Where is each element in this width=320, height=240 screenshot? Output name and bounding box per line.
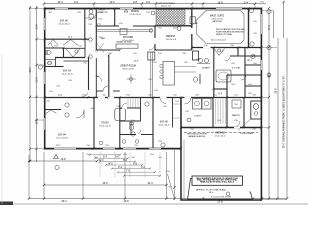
wall garage front xyxy=(181,199,262,201)
window right 1 xyxy=(260,14,262,34)
dimension line bottom overall xyxy=(29,198,286,200)
svg-text:B.R. #3: B.R. #3 xyxy=(63,71,71,73)
bubble left wall xyxy=(38,65,42,69)
door gap kitchen xyxy=(154,38,156,44)
svg-text:12'-0: 12'-0 xyxy=(109,2,115,4)
svg-text:38'-0: 38'-0 xyxy=(30,67,32,73)
svg-text:21'-0 x 21'-0: 21'-0 x 21'-0 xyxy=(215,135,225,137)
great room divider wall xyxy=(150,52,152,98)
sidewalk diagonal xyxy=(168,174,175,199)
svg-text:B.R. #2: B.R. #2 xyxy=(60,21,68,23)
window left 2 xyxy=(44,72,46,84)
bubble corner 3 xyxy=(251,54,255,58)
wall bath2 low xyxy=(120,134,153,136)
wall wic mid xyxy=(227,74,261,76)
master leader note xyxy=(211,28,245,42)
dimension ticks right and bottom xyxy=(28,1,288,200)
fixture fireplace niche xyxy=(190,17,196,24)
wall laundry 1 xyxy=(212,98,214,128)
dimension ticks left xyxy=(29,7,38,162)
fixture bath2 toilet xyxy=(129,125,133,131)
svg-text:M.BATH: M.BATH xyxy=(202,67,210,70)
fixture great room bar xyxy=(163,62,175,86)
wall master bottom xyxy=(192,47,262,49)
wall hall south of BR2 xyxy=(44,47,64,49)
door gap bedroom3 xyxy=(88,90,90,97)
wall closet right xyxy=(84,39,86,57)
svg-text:GARAGE: GARAGE xyxy=(215,132,225,135)
svg-text:KITCHEN: KITCHEN xyxy=(123,37,133,39)
wall wic top xyxy=(227,55,261,57)
wall master right inner xyxy=(248,8,250,48)
window top 1 xyxy=(55,8,68,10)
wall wic 1 xyxy=(237,48,239,57)
window bottom 1 xyxy=(54,148,76,150)
wall closet bar xyxy=(55,57,85,59)
svg-text:16'-2 x 13'-6 CLG.: 16'-2 x 13'-6 CLG. xyxy=(211,40,227,42)
door arc foyer xyxy=(88,12,96,20)
door gap porch-breakfast xyxy=(191,28,193,34)
ceiling fan great room xyxy=(127,75,136,84)
wall closet right col xyxy=(244,48,246,98)
fixture mbath counter xyxy=(197,63,210,65)
svg-text:W.I.C.: W.I.C. xyxy=(247,60,253,62)
bottom dim stack ticks xyxy=(89,154,161,177)
door arc bath2 low xyxy=(136,130,141,135)
fixture bath2 sink xyxy=(145,102,149,106)
svg-text:11'-4 x 11'-0: 11'-4 x 11'-0 xyxy=(62,74,74,76)
wall bath2 mid xyxy=(120,120,141,122)
svg-text:ISLAND W/ SINK: ISLAND W/ SINK xyxy=(116,41,132,44)
wall wic left xyxy=(226,75,228,98)
svg-text:B.R. #5: B.R. #5 xyxy=(160,122,168,124)
wall bath2 right xyxy=(152,98,154,149)
dimension line bottom mid xyxy=(44,184,167,186)
wall breakfast bottom xyxy=(155,49,192,51)
bubble master wall 2 xyxy=(250,42,254,46)
master suite tray ceiling outline xyxy=(197,11,245,44)
svg-text:12'-8: 12'-8 xyxy=(60,159,66,161)
dimension line left outer xyxy=(29,6,31,162)
toilet master xyxy=(194,77,198,82)
wall bath right xyxy=(63,48,65,58)
bubble master wall xyxy=(249,8,253,12)
svg-text:11'-4: 11'-4 xyxy=(37,24,39,30)
fan pentagon foyer xyxy=(89,15,94,20)
fixture dryer xyxy=(202,99,211,110)
wall closet top xyxy=(64,47,86,49)
pantry X xyxy=(97,43,105,53)
top dimension texts xyxy=(57,2,264,8)
room label bedroom2 xyxy=(56,11,253,140)
closet shelf hall top xyxy=(86,17,97,19)
wall bedroom2 right / hall xyxy=(84,8,86,39)
dimension line right 1b xyxy=(273,11,275,39)
door arc kitchen xyxy=(149,44,155,50)
bubble right dim top xyxy=(267,9,271,13)
hall door arc xyxy=(103,86,108,91)
br4 closet wall xyxy=(44,109,61,111)
svg-text:11'-0 x 11'-6: 11'-0 x 11'-6 xyxy=(159,125,171,127)
svg-text:DINING: DINING xyxy=(131,11,139,13)
note box xyxy=(192,176,243,185)
fixture kitchen island xyxy=(116,44,138,48)
door arc bedroom5 xyxy=(160,98,166,104)
door gap hall to great xyxy=(98,97,105,99)
dimension line top xyxy=(44,3,266,5)
window right 2 xyxy=(260,60,262,70)
wall porch bottom xyxy=(155,25,192,27)
door gap laundry xyxy=(185,97,192,99)
right dimension texts rotated xyxy=(269,25,285,149)
svg-text:PANTRY: PANTRY xyxy=(232,114,241,117)
garage door header dashed xyxy=(184,132,258,134)
door arc bath1 xyxy=(51,43,56,48)
dimension extension lines left xyxy=(30,9,44,149)
closet bifold pair 1 xyxy=(48,40,59,46)
bubble at garage door label xyxy=(226,192,230,196)
window top master xyxy=(216,8,242,10)
wall exterior right xyxy=(260,8,262,200)
wall hall closet xyxy=(95,58,97,98)
wall porch right xyxy=(191,8,193,50)
left dimension texts rotated xyxy=(30,24,39,125)
wall laundry 3 xyxy=(243,98,245,128)
bubble below triangle xyxy=(55,165,59,169)
svg-text:GARAGE SLAB REQ.: GARAGE SLAB REQ. xyxy=(188,135,206,138)
door gap master entry xyxy=(203,47,211,49)
wall closet right h2 xyxy=(245,85,261,87)
door gap study xyxy=(108,97,114,99)
dimension extension verticals bottom xyxy=(28,155,30,199)
svg-text:10'-0 x 11'-6: 10'-0 x 11'-6 xyxy=(99,126,111,128)
svg-text:10'-0 x 9'-0: 10'-0 x 9'-0 xyxy=(166,39,177,41)
svg-text:12'-0 x 11'-0: 12'-0 x 11'-0 xyxy=(129,14,141,16)
br4 bubbles xyxy=(65,103,69,107)
bubble hall bath xyxy=(131,132,135,136)
texts below bottom wall xyxy=(86,154,162,159)
coat closet wall xyxy=(172,98,174,128)
wall mbath shelf xyxy=(214,88,227,90)
dimension ticks top xyxy=(43,2,256,5)
closet bifold pair 2 xyxy=(63,40,78,46)
wall exterior left xyxy=(44,8,46,149)
door gap mbath xyxy=(225,55,230,57)
sheet edge mark bottom-left xyxy=(0,202,13,206)
wall bedroom2 bottom xyxy=(44,38,89,40)
fixture mbath sink1 xyxy=(199,59,203,63)
fixture kitchen counter upper xyxy=(96,29,152,31)
fixture bath1 toilet xyxy=(46,51,51,55)
dimension extension lines top xyxy=(44,4,255,10)
svg-text:MAST. SUITE: MAST. SUITE xyxy=(210,15,225,18)
svg-text:100 SQ IN AIR: 100 SQ IN AIR xyxy=(240,132,254,135)
wall mbath wc xyxy=(199,74,201,84)
wall exterior top xyxy=(44,8,262,10)
bubble br4 xyxy=(161,143,165,147)
door arc hall xyxy=(96,76,102,82)
wall kitchen right xyxy=(154,26,156,50)
fixture bath1 sink xyxy=(48,61,52,65)
bubble foyer fan xyxy=(89,10,93,14)
bubbles above bottom wall xyxy=(99,141,103,145)
svg-text:10'-4: 10'-4 xyxy=(147,183,153,185)
window bottom 2 xyxy=(103,148,115,150)
svg-text:13'-8: 13'-8 xyxy=(217,2,223,4)
svg-text:PANELS AT BOTH SIDES OF ALL WA: PANELS AT BOTH SIDES OF ALL WALLS xyxy=(200,181,235,184)
br4 closet doors xyxy=(46,110,57,114)
covered porch lattice xyxy=(156,10,185,26)
dimension line bottom upper xyxy=(29,160,97,162)
svg-text:11'-4 x 12'-8: 11'-4 x 12'-8 xyxy=(56,138,68,140)
dimension line right 1 xyxy=(268,11,270,200)
dimension line right 2 xyxy=(277,38,279,199)
wall hall right vertical xyxy=(88,58,90,98)
wall exterior bottom-left xyxy=(44,148,182,150)
door arc wic2 xyxy=(241,75,246,80)
sheet edge line left faint xyxy=(1,55,3,204)
hall stub walls xyxy=(96,90,103,92)
window left 1 xyxy=(44,18,46,30)
ac leader line xyxy=(238,119,251,131)
wall garage top xyxy=(181,127,262,129)
note box text xyxy=(196,177,239,184)
svg-text:9'-0 x 8'-0 O.H. DOOR: 9'-0 x 8'-0 O.H. DOOR xyxy=(211,196,231,198)
wall kitchen bottom xyxy=(96,49,120,51)
door arc bedroom3 xyxy=(82,90,89,97)
dimension line right 3 xyxy=(283,2,285,38)
svg-text:21'-8: 21'-8 xyxy=(217,202,223,204)
svg-text:16'-8: 16'-8 xyxy=(102,183,108,185)
window left 3 xyxy=(44,118,46,130)
fireplace block xyxy=(148,52,155,60)
garage door jamb right xyxy=(250,192,253,200)
bubble breakfast xyxy=(177,27,181,31)
wall closet right h1 xyxy=(245,64,261,66)
svg-text:22'-0: 22'-0 xyxy=(269,72,271,78)
window bottom 3 xyxy=(123,148,136,150)
closet bifold pair 3 apex down xyxy=(66,49,80,57)
bubble kitchen pass xyxy=(149,29,153,33)
pantry shelving xyxy=(216,99,226,124)
door gap bedroom5 xyxy=(160,97,167,99)
wall laundry 2 xyxy=(226,98,228,128)
svg-text:38'-0" OVERALL RUNNING FRONT &: 38'-0" OVERALL RUNNING FRONT & SIDES (EL… xyxy=(283,75,286,148)
svg-text:25'-4: 25'-4 xyxy=(61,201,67,203)
wall bedroom3 right xyxy=(93,98,95,149)
door gap bath2 doors xyxy=(122,107,127,109)
svg-text:11'-0: 11'-0 xyxy=(37,77,39,83)
door arc garage entry xyxy=(234,121,240,127)
svg-text:6'-0 TUB: 6'-0 TUB xyxy=(232,68,240,70)
linen shelves xyxy=(128,99,138,108)
garage door line xyxy=(188,198,253,200)
door arc laundry xyxy=(185,98,192,105)
fixture bath2 tub xyxy=(115,109,126,121)
garage door jamb left xyxy=(188,179,193,201)
wall garage left xyxy=(180,97,182,200)
dimension line right 4 xyxy=(286,38,288,199)
wall hall linen xyxy=(64,60,89,62)
svg-text:16'-8: 16'-8 xyxy=(123,201,129,203)
svg-text:UTILITY: UTILITY xyxy=(194,116,202,118)
wall mbath left xyxy=(213,48,215,98)
svg-text:17'-4: 17'-4 xyxy=(269,25,271,31)
triangle marker driveway xyxy=(54,155,59,159)
svg-text:(VAULTED): (VAULTED) xyxy=(212,20,222,23)
svg-text:BRKFST.: BRKFST. xyxy=(166,36,176,38)
svg-text:19'-0 x 15'-8: 19'-0 x 15'-8 xyxy=(122,69,134,71)
fixture freezer xyxy=(232,100,241,108)
svg-text:11'-4 x 11'-0: 11'-4 x 11'-0 xyxy=(59,24,71,26)
fixture mbath tub xyxy=(216,70,231,82)
svg-text:22'-4: 22'-4 xyxy=(57,2,63,4)
wall study right xyxy=(119,98,121,149)
range box xyxy=(120,29,127,35)
wall corridor mid horizontal xyxy=(44,97,262,99)
triangle marker top xyxy=(124,9,128,12)
closet bubble xyxy=(75,50,78,53)
coat closet shelves xyxy=(173,103,181,105)
wall kitchen top xyxy=(96,25,155,27)
door arc mbath xyxy=(225,56,230,61)
svg-text:GREAT ROOM: GREAT ROOM xyxy=(120,65,136,68)
svg-text:28'-8: 28'-8 xyxy=(275,88,277,94)
svg-text:SEATS OPTIONAL: SEATS OPTIONAL xyxy=(216,33,232,36)
svg-text:B.R. #4: B.R. #4 xyxy=(58,135,66,137)
wall foyer right xyxy=(95,8,97,50)
door arc bath2 left xyxy=(122,103,127,108)
wall bath2 closet xyxy=(130,121,132,135)
br4 door arc xyxy=(76,110,84,118)
dimension line left inner xyxy=(36,6,38,162)
window top 2 xyxy=(120,8,133,10)
bubble right dim 2 xyxy=(267,45,271,49)
bottom dimension texts xyxy=(60,156,223,203)
bubble laundry xyxy=(187,118,191,122)
sheet edge line bottom xyxy=(0,203,308,205)
wall hall left vertical xyxy=(108,55,110,98)
svg-text:16'-0 x 7'-0: 16'-0 x 7'-0 xyxy=(161,6,172,8)
door gap kitchen top wall xyxy=(119,25,133,27)
bubbles near closet wall xyxy=(89,38,93,42)
dimension extension vertical garage door xyxy=(174,150,176,200)
window bottom 4 xyxy=(149,148,161,150)
wall mbath shower xyxy=(193,51,199,60)
wall bath bottom xyxy=(44,66,64,68)
master double doors xyxy=(214,49,225,56)
svg-text:12'-8: 12'-8 xyxy=(37,119,39,125)
wall ac closet xyxy=(251,101,261,119)
wall bath2 vert xyxy=(140,98,142,122)
dimension extension lines right xyxy=(262,11,287,200)
bubble right dim mid xyxy=(267,73,271,77)
fixture water heater xyxy=(253,104,259,110)
fixture washer xyxy=(193,99,202,110)
wall dining divider vertical xyxy=(114,8,116,26)
fixture mbath sink2 xyxy=(205,59,209,63)
wall bath2 hall xyxy=(120,107,141,109)
wall shower xyxy=(55,58,57,67)
door gap garage entry xyxy=(234,127,240,129)
svg-text:STUDY: STUDY xyxy=(101,123,109,125)
